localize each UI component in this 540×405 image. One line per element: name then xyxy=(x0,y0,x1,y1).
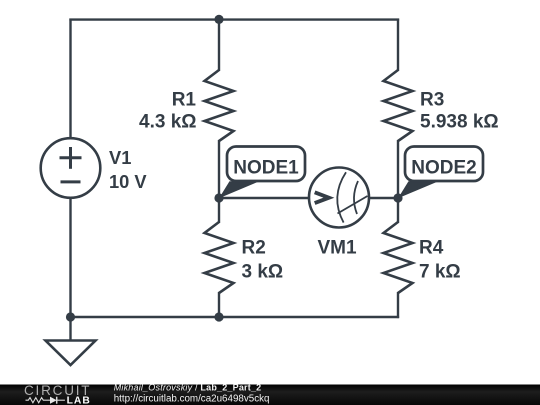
svg-text:Mikhail_Ostrovskiy / Lab_2_Par: Mikhail_Ostrovskiy / Lab_2_Part_2 xyxy=(114,382,262,392)
svg-text:NODE1: NODE1 xyxy=(233,158,299,179)
footer logo diode xyxy=(50,397,57,404)
resistor R2 xyxy=(205,222,284,293)
wire middle column below R2 xyxy=(218,292,220,318)
node junction dot bottom left xyxy=(66,312,75,321)
voltmeter VM1 xyxy=(309,168,369,259)
svg-text:3 kΩ: 3 kΩ xyxy=(242,262,284,283)
footer bar xyxy=(0,385,540,405)
svg-text:4.3 kΩ: 4.3 kΩ xyxy=(139,112,197,133)
resistor R4 xyxy=(384,222,461,293)
svg-text:R1: R1 xyxy=(172,90,197,111)
wire left vertical lower xyxy=(69,197,71,318)
resistor R1 xyxy=(139,70,234,141)
svg-text:http://circuitlab.com/ca2u6498: http://circuitlab.com/ca2u6498v5ckq xyxy=(114,394,270,405)
wire middle column top xyxy=(218,20,220,71)
wire right column node2 to R4 xyxy=(397,198,399,223)
svg-text:5.938 kΩ: 5.938 kΩ xyxy=(420,112,499,133)
svg-text:R2: R2 xyxy=(242,238,266,259)
wire node1 to voltmeter xyxy=(219,197,310,199)
svg-text:R4: R4 xyxy=(419,238,444,259)
wire right column between R3 and node2 xyxy=(397,140,399,199)
wire bottom horizontal xyxy=(69,316,399,318)
footer logo schematic resistor wire xyxy=(26,397,65,404)
node junction dot bottom middle xyxy=(214,312,223,321)
node NODE1 callout xyxy=(219,147,305,199)
svg-text:R3: R3 xyxy=(420,90,444,111)
wire voltmeter to node2 xyxy=(368,197,398,199)
node NODE2 callout xyxy=(398,147,483,199)
svg-text:7 kΩ: 7 kΩ xyxy=(419,262,461,283)
wire top horizontal xyxy=(69,18,399,20)
node NODE1 junction dot xyxy=(214,193,223,202)
wire left vertical upper xyxy=(69,19,71,140)
wire right column below R4 xyxy=(397,292,399,318)
ground xyxy=(46,317,96,365)
svg-text:10 V: 10 V xyxy=(109,171,147,192)
wire right column top xyxy=(397,19,399,72)
svg-text:LAB: LAB xyxy=(67,396,91,405)
node junction dot top xyxy=(214,15,223,24)
voltage source V1 xyxy=(41,138,148,198)
wire middle column node1 to R2 xyxy=(218,198,220,223)
svg-text:V1: V1 xyxy=(109,147,131,168)
resistor R3 xyxy=(384,70,499,141)
node NODE2 junction dot xyxy=(393,193,402,202)
wire middle column between R1 and node1 xyxy=(218,140,220,199)
svg-text:VM1: VM1 xyxy=(317,238,357,259)
svg-text:NODE2: NODE2 xyxy=(411,158,476,179)
